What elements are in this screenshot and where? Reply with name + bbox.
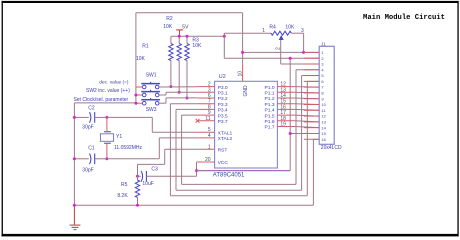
junction R3 top (186, 35, 189, 38)
svg-text:U2: U2 (219, 74, 226, 80)
capacitor C3 (141, 171, 142, 182)
wire 5V rail (171, 35, 224, 37)
pin stub U2 P3.3 (198, 103, 215, 105)
svg-text:10K: 10K (285, 24, 295, 30)
pin stub U2 P3.1 (198, 91, 215, 93)
pin stub J1 pin15 (304, 132, 319, 134)
wire VCC riser (pin2/pin15/rail) (289, 58, 291, 170)
wire left ground rail vertical (73, 103, 75, 205)
wire LCD pin15 tap (290, 133, 319, 135)
wire R2 bottom (178, 61, 180, 93)
pin stub U2 P3.7 (198, 120, 215, 122)
pin stub U2 P1.3 (277, 103, 294, 105)
capacitor C2 (90, 112, 91, 123)
svg-text:30pF: 30pF (82, 168, 93, 174)
connector J1 body (319, 46, 334, 144)
svg-text:30pF: 30pF (82, 124, 93, 130)
pin stub Y1 top (106, 117, 108, 131)
wire P1.2 to LCD (294, 97, 319, 100)
wire LCD pin1 GND line (243, 51, 320, 53)
svg-text:P1.6: P1.6 (265, 119, 275, 125)
svg-text:P3.5: P3.5 (218, 113, 228, 119)
svg-text:4: 4 (208, 133, 211, 139)
svg-text:1: 1 (262, 28, 265, 34)
svg-text:R5: R5 (121, 182, 128, 188)
svg-text:P1.3: P1.3 (265, 102, 275, 108)
wire VCC purple rail (197, 170, 291, 172)
pin stub U2 XTAL1 (198, 131, 215, 133)
svg-text:P3.2: P3.2 (218, 96, 228, 102)
wire VCC horiz (197, 161, 198, 163)
pin stub J1 pin12 (304, 115, 319, 117)
junction VCC rail (195, 169, 198, 172)
pin stub U2 VCC (198, 161, 215, 163)
junction R2/P3 line (178, 91, 181, 94)
svg-text:P3.4: P3.4 (218, 108, 228, 114)
wire C2 left (74, 116, 88, 118)
pin stub U2 P3.4 (198, 108, 215, 110)
resistor R4 pot (271, 31, 291, 35)
pin stub U2 P1.5 (277, 114, 294, 116)
svg-text:Y1: Y1 (116, 134, 122, 140)
resistor R2 (177, 44, 181, 61)
svg-text:dec. value (=): dec. value (=) (99, 80, 129, 86)
junction SW3 left (134, 102, 137, 105)
pot wiper arrow (279, 35, 284, 40)
svg-text:P1.5: P1.5 (265, 113, 275, 119)
pin stub U2 XTAL2 (198, 137, 215, 139)
wire P1.3 to LCD (294, 103, 319, 106)
pin stub U2 P3.2 (198, 97, 215, 99)
wire P1.5 to LCD (294, 114, 319, 117)
svg-text:Set Clock/sel. parameter: Set Clock/sel. parameter (73, 97, 128, 103)
wire P3.5 wrap (182, 114, 198, 116)
op-amp U2 body (215, 81, 278, 168)
ground symbol (70, 205, 81, 229)
wire 5V drop to LCD pin2 (223, 36, 225, 58)
pin stub J1 pin10 (304, 104, 319, 106)
junction R3/P3 line (186, 97, 189, 100)
svg-text:13: 13 (321, 119, 326, 124)
junction C2 right (105, 116, 108, 119)
pin stub U2 pin10 GND (242, 64, 244, 81)
junction 5V rail end (223, 35, 226, 38)
pin stub J1 pin13 (304, 121, 319, 123)
power symbol 5V (176, 29, 183, 31)
wire P1.4 to LCD (294, 108, 319, 111)
wire P1.0 to LCD (294, 86, 319, 89)
wire P3.4 wrap (176, 108, 198, 110)
svg-text:P1.1: P1.1 (265, 91, 275, 97)
junction C1 right (105, 157, 108, 160)
pin stub U2 P1.6 (277, 120, 294, 122)
svg-text:Main Module Circuit: Main Module Circuit (363, 14, 445, 22)
pin stub J1 pin6 (304, 80, 319, 82)
svg-text:11.0592MHz: 11.0592MHz (114, 145, 142, 151)
junction C1 left (73, 157, 76, 160)
svg-text:14: 14 (321, 125, 326, 130)
junction R2 top (178, 35, 181, 38)
svg-text:10K: 10K (136, 56, 146, 62)
crystal Y1 (100, 132, 113, 144)
resistor R3 (185, 44, 189, 61)
svg-text:AT89C4051: AT89C4051 (213, 173, 245, 179)
junction RST/C3/R5 (136, 175, 139, 178)
resistor R5 (137, 176, 139, 180)
wire R3 top (186, 36, 188, 43)
svg-text:3: 3 (301, 28, 304, 34)
pin stub J1 pin8 (304, 92, 319, 94)
wire SW1 to P3.0 (159, 86, 198, 88)
junction ground rail left (73, 204, 76, 207)
svg-text:5V: 5V (182, 25, 189, 31)
svg-text:R1: R1 (142, 43, 149, 49)
no-connect X on P3.7 (196, 119, 200, 123)
pin stub U2 P3.5 (198, 114, 215, 116)
svg-text:C3: C3 (151, 166, 158, 172)
wire ground rail bottom (74, 204, 313, 206)
pin stub J1 pin2 (304, 57, 319, 59)
wire XTAL2 route (107, 158, 159, 160)
wire SW2 to P3.1 (159, 94, 166, 96)
wire switch common to ground rail (74, 102, 135, 104)
resistor R1 (169, 44, 173, 61)
pin stub Y1 bottom (106, 143, 108, 159)
pin stub U2 P1.2 (277, 97, 294, 99)
pin stub J1 pin9 (304, 98, 319, 100)
wire R4 pin3 drop (303, 33, 305, 52)
svg-text:XTAL1: XTAL1 (218, 130, 233, 136)
svg-text:P1.2: P1.2 (265, 96, 275, 102)
wire XTAL1 route (107, 116, 152, 118)
wire C1 left (74, 158, 88, 160)
svg-text:10uF: 10uF (142, 181, 153, 187)
pin stub J1 pin16 (304, 138, 319, 140)
switch SW3 (141, 99, 160, 101)
wire LCD pin16 riser (312, 139, 314, 205)
pin stub J1 pin4 (304, 69, 319, 71)
wire GND left vertical to switches (135, 13, 137, 104)
pin stub U2 P1.0 (277, 86, 294, 88)
svg-text:19: 19 (280, 122, 286, 128)
wire SW3 to P3.2 (159, 102, 166, 104)
wire GND top loop horizontal (136, 12, 243, 14)
svg-text:15: 15 (321, 131, 326, 136)
svg-text:10K: 10K (163, 24, 173, 30)
wire R1 top (170, 36, 172, 43)
svg-text:12: 12 (321, 114, 326, 119)
pin stub U2 RST (198, 148, 215, 150)
svg-text:1: 1 (208, 144, 211, 150)
svg-text:C2: C2 (88, 106, 95, 112)
pin stub J1 pin7 (304, 86, 319, 88)
svg-text:20x4LCD: 20x4LCD (321, 145, 342, 151)
svg-text:P1.4: P1.4 (265, 108, 275, 114)
svg-text:10K: 10K (192, 43, 202, 49)
pin stub J1 pin1 (304, 51, 319, 53)
svg-text:XTAL2: XTAL2 (218, 136, 233, 142)
svg-text:P3.7: P3.7 (218, 119, 228, 125)
wire R3 bottom (186, 61, 188, 99)
svg-text:20: 20 (205, 157, 211, 163)
wire P3.3 wrap (170, 103, 197, 105)
pin stub U2 P1.1 (277, 91, 294, 93)
pin stub U2 P1.4 (277, 108, 294, 110)
wire P1.7 to LCD (294, 127, 319, 128)
svg-text:P3.0: P3.0 (218, 85, 228, 91)
junction pin15/riser (289, 132, 292, 135)
pin stub J1 pin14 (304, 127, 319, 129)
wire P1.1 to LCD (294, 91, 319, 94)
wire P1.6 to LCD (294, 121, 319, 122)
svg-text:R2: R2 (166, 16, 173, 22)
svg-text:P1.0: P1.0 (265, 85, 275, 91)
svg-text:SW1: SW1 (146, 73, 157, 79)
wire R1 bottom (170, 61, 172, 87)
wire RST route (165, 148, 198, 150)
wire C2 right (95, 116, 107, 118)
wire C3 right (147, 175, 197, 177)
switch SW2 (141, 91, 160, 93)
junction GND/pin1 (241, 51, 244, 54)
pin stub J1 pin5 (304, 75, 319, 77)
svg-text:11: 11 (205, 116, 210, 122)
svg-text:J1: J1 (321, 41, 326, 46)
wire R2 top (178, 36, 180, 43)
svg-text:8.2K: 8.2K (117, 193, 128, 199)
svg-text:P1.7: P1.7 (265, 125, 275, 131)
wire R4 wiper to LCD pin3 (280, 40, 282, 64)
pin stub SW1 left (136, 86, 142, 88)
svg-text:SW2 inc. value (++): SW2 inc. value (++) (86, 88, 130, 94)
switch SW1 (141, 83, 160, 85)
pin stub SW2 left (136, 94, 142, 96)
pin stub J1 pin11 (304, 109, 319, 111)
junction R1/P3 line (169, 85, 172, 88)
pin stub U2 P1.7 (277, 126, 294, 128)
junction R5 bottom (136, 204, 139, 207)
wire R4 right (291, 32, 303, 34)
wire C3 left (138, 175, 141, 177)
pin stub SW3 left (136, 102, 142, 104)
wire VCC stub route (196, 162, 198, 176)
svg-text:P3.1: P3.1 (218, 91, 228, 97)
junction SW2 left (134, 94, 137, 97)
svg-text:C1: C1 (88, 146, 95, 152)
svg-text:GND: GND (243, 85, 249, 97)
svg-text:10: 10 (321, 102, 326, 107)
svg-text:VCC: VCC (218, 160, 229, 166)
wire GND vertical to IC pin10 (242, 13, 244, 65)
junction R4-pin3/pin1 line (302, 51, 305, 54)
svg-text:R4: R4 (269, 24, 276, 30)
junction pin2/riser (289, 57, 292, 60)
pin stub J1 pin3 (304, 63, 319, 65)
wire 5V jog up to R4 (223, 33, 225, 36)
svg-text:16: 16 (321, 137, 326, 142)
pin stub U2 P3.0 (198, 86, 215, 88)
capacitor C1 (90, 154, 91, 165)
wire C1 right (95, 158, 107, 160)
junction C2 left (73, 116, 76, 119)
svg-text:RST: RST (218, 148, 228, 154)
svg-text:P3.3: P3.3 (218, 102, 228, 108)
svg-text:10: 10 (237, 71, 243, 77)
svg-text:SW3: SW3 (146, 107, 157, 113)
